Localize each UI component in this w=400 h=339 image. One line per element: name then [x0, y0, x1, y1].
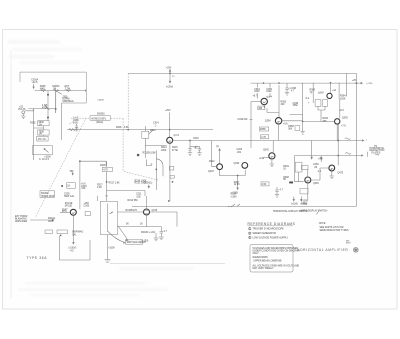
wire from jack: [25, 109, 55, 111]
wire: [145, 144, 166, 146]
capacitor C315: [188, 148, 191, 153]
wires: [308, 168, 329, 200]
svg-text:1%: 1%: [39, 124, 42, 126]
label SW300: [40, 191, 55, 198]
svg-text:UPPER BEAM LOWER BE: UPPER BEAM LOWER BE: [253, 259, 282, 262]
resistor R355: [259, 127, 268, 131]
resistor R301A: [41, 90, 46, 92]
svg-text:Q393: Q393: [342, 118, 348, 120]
pot box R318: [100, 201, 117, 234]
output arrow lower: [356, 155, 363, 156]
wire emitter down: [73, 215, 75, 244]
transistor Q393: [335, 119, 340, 124]
junction dot: [127, 129, 129, 131]
label swp mag regis box: [126, 240, 143, 244]
svg-text:FOLL: FOLL: [62, 212, 69, 214]
wire vertical contact: [47, 91, 49, 121]
svg-text:5K: 5K: [283, 179, 286, 181]
wire: [106, 161, 108, 201]
junction blob: [137, 154, 140, 157]
svg-text:1M: 1M: [53, 89, 56, 91]
svg-text:R309: R309: [100, 165, 106, 167]
svg-text:6.8K: 6.8K: [124, 127, 129, 129]
wire center vertical: [169, 113, 171, 138]
svg-text:R312 560: R312 560: [128, 200, 139, 202]
big box right edge: [355, 73, 357, 206]
transistor Q354: [275, 118, 281, 124]
svg-text:C306: C306: [84, 205, 90, 207]
wire bus3 out: [295, 155, 357, 157]
svg-text:+7.9: +7.9: [341, 126, 346, 128]
resistor R311: [85, 212, 90, 216]
svg-text:1K: 1K: [67, 186, 70, 188]
resistor R462: [300, 189, 308, 194]
ghost left strip: [10, 50, 12, 298]
svg-text:1000: 1000: [266, 91, 272, 93]
junction dots: [47, 94, 49, 96]
wire arrow: [33, 84, 34, 89]
item 1: [249, 227, 251, 229]
svg-text:.001: .001: [243, 119, 248, 121]
svg-text:LOW VOLTAGE POWER SUPPLY: LOW VOLTAGE POWER SUPPLY: [253, 236, 289, 239]
wire Q364 down to Q354: [264, 85, 279, 118]
svg-text:Q313: Q313: [152, 210, 158, 212]
ground J: [154, 238, 159, 241]
svg-text:R322: R322: [209, 161, 215, 163]
svg-text:R391: R391: [323, 118, 329, 120]
ground: [105, 260, 111, 263]
resistor R461: [301, 165, 308, 169]
svg-text:1000: 1000: [254, 91, 260, 93]
junction dot: [237, 175, 239, 177]
jack ground: [22, 114, 24, 116]
svg-text:WAVEFORMS:: WAVEFORMS:: [253, 256, 269, 259]
svg-text:5K: 5K: [126, 224, 129, 226]
junction dot on bus1: [169, 129, 171, 131]
svg-text:-4.5: -4.5: [70, 250, 75, 252]
svg-text:.005: .005: [136, 196, 141, 198]
svg-text:R313B 100K: R313B 100K: [143, 153, 157, 155]
svg-text:NOTE:: NOTE:: [319, 223, 326, 225]
ground: [159, 237, 164, 240]
hatch marks: [228, 204, 240, 207]
wire bus3 drop: [295, 156, 304, 182]
svg-text:100K: 100K: [48, 221, 54, 223]
svg-text:+25V: +25V: [166, 67, 172, 69]
resistor R350 tall: [295, 162, 302, 172]
ghost line: [110, 263, 225, 265]
svg-text:SEMICONDUCTOR TYPES: SEMICONDUCTOR TYPES: [320, 230, 349, 232]
svg-text:(+25V): (+25V): [166, 86, 173, 88]
wire emitter: [278, 124, 280, 141]
capacitor C348: [285, 83, 288, 92]
wire: [43, 103, 61, 140]
svg-text:C316: C316: [193, 138, 199, 140]
tick on feedback: [250, 119, 253, 121]
resistor box: [45, 230, 53, 233]
ground: [331, 171, 333, 176]
wire: [97, 196, 99, 201]
svg-text:R315: R315: [172, 147, 178, 149]
svg-text:+5.9: +5.9: [318, 159, 323, 161]
svg-text:.001: .001: [81, 188, 86, 190]
wire ganged switch dashed diagonal: [36, 118, 87, 217]
svg-text:UNDER CONDITIONS GIVEN ON DIAG: UNDER CONDITIONS GIVEN ON DIAGRAM: [253, 249, 300, 252]
svg-text:2.7K: 2.7K: [261, 137, 266, 139]
svg-text:Q343: Q343: [263, 150, 269, 152]
svg-text:R384: R384: [340, 96, 346, 98]
svg-text:VOLTS: VOLTS: [18, 109, 26, 111]
transistor Q473: [329, 165, 335, 171]
svg-text:47K 1%: 47K 1%: [38, 139, 46, 141]
svg-text:+139: +139: [259, 158, 265, 160]
connector stud: [289, 182, 293, 184]
item 3: [249, 236, 251, 238]
jack J25: [22, 111, 25, 114]
svg-text:R310B: R310B: [126, 210, 134, 212]
dashed linkage vertical: [122, 119, 124, 172]
svg-text:Q323: Q323: [208, 171, 214, 173]
ground: [197, 153, 201, 156]
svg-text:+6.7: +6.7: [253, 96, 258, 98]
wire tick arrow: [72, 172, 73, 175]
wire bus: [35, 89, 87, 92]
svg-text:+150V: +150V: [108, 248, 115, 250]
wire cross link: [34, 126, 44, 130]
svg-text:ONLY.: ONLY.: [253, 253, 260, 255]
wire emitter down: [169, 143, 171, 201]
svg-text:R326: R326: [231, 194, 237, 196]
wire base to Q313: [118, 211, 144, 213]
svg-text:R311: R311: [135, 183, 141, 185]
resistor R302B 750K: [38, 130, 49, 135]
bus label ticks: [43, 89, 68, 92]
item 2: [249, 232, 251, 234]
svg-text:TP: TP: [216, 147, 219, 149]
svg-text:R313: R313: [150, 130, 156, 132]
wire: [302, 122, 304, 129]
wire drop from bus2: [189, 141, 191, 148]
svg-text:-1.2: -1.2: [317, 171, 322, 173]
wire: [303, 99, 340, 140]
wire: [150, 212, 178, 227]
svg-text:(+225): (+225): [367, 83, 373, 85]
wire base stub: [251, 101, 261, 103]
ghost smudge top-left: [8, 40, 82, 64]
svg-text:56K: 56K: [288, 128, 293, 130]
transistor Q463: [305, 177, 311, 183]
wire switch shaft: [55, 91, 57, 113]
svg-text:SW300: SW300: [41, 193, 49, 195]
svg-text:R314: R314: [161, 147, 167, 149]
svg-text:MAY VARY WIDELY.: MAY VARY WIDELY.: [253, 267, 275, 270]
ganged curve arrows: [108, 232, 125, 244]
resistor R357: [261, 135, 269, 139]
svg-text:MAG: MAG: [40, 88, 45, 91]
svg-text:(MAG): (MAG): [96, 121, 103, 124]
svg-text:1.5K: 1.5K: [262, 184, 267, 186]
svg-text:56K: 56K: [70, 171, 75, 173]
svg-text:-0.4: -0.4: [305, 98, 310, 100]
svg-text:HORIZ DISPL: HORIZ DISPL: [92, 119, 107, 121]
svg-text:(.1): (.1): [149, 182, 153, 184]
big box bottom edge: [132, 205, 356, 207]
resistor R301B: [54, 90, 59, 92]
svg-text:SWP/MAG: SWP/MAG: [62, 100, 73, 103]
resistor R304A 47K: [37, 136, 48, 141]
wire vertical at 212: [211, 141, 213, 167]
dashed linkage segs: [124, 172, 158, 181]
pot R313: [142, 131, 149, 138]
svg-text:AMPLIFIER: AMPLIFIER: [15, 220, 28, 223]
svg-text:R383: R383: [310, 90, 316, 92]
svg-text:v: v: [366, 140, 367, 142]
capacitor C336: [275, 187, 278, 195]
transistor Q343: [269, 153, 275, 159]
svg-text:1K: 1K: [140, 224, 143, 226]
wire: [318, 106, 325, 121]
resistor R309: [102, 167, 112, 171]
big box left dashed edge: [127, 73, 129, 129]
resistor box: [57, 230, 68, 234]
wire feedback drop: [250, 102, 252, 149]
wire dashed to callout: [71, 117, 89, 119]
supply rail arrow: [356, 82, 362, 84]
wire dashed: [111, 117, 123, 119]
svg-text:100K: 100K: [141, 183, 147, 185]
svg-text:+1.84: +1.84: [149, 232, 156, 234]
wire main vertical: [79, 161, 81, 210]
TP arrow: [320, 157, 322, 163]
transistor Q323: [217, 164, 223, 170]
wire collector from bus2: [272, 141, 274, 154]
svg-text:C300B: C300B: [98, 100, 105, 102]
transistor Q303: [70, 209, 76, 215]
svg-text:CAL: CAL: [72, 233, 77, 236]
svg-text:TRIGGER SYNCHROSCOPE: TRIGGER SYNCHROSCOPE: [253, 229, 284, 231]
wire branch right: [80, 161, 106, 165]
svg-text:+25V: +25V: [165, 110, 171, 112]
svg-text:3.3K: 3.3K: [97, 187, 102, 189]
wire TP arrow: [219, 149, 221, 164]
svg-text:+22.5: +22.5: [32, 82, 39, 84]
wire y146 stub: [190, 145, 200, 147]
junction dots: [330, 82, 332, 84]
svg-text:C322: C322: [237, 149, 243, 151]
svg-text:SWP/MAG: SWP/MAG: [72, 231, 83, 234]
svg-text:R302: R302: [30, 123, 36, 125]
transistor Q333: [242, 163, 248, 169]
transistor Q313: [144, 209, 150, 215]
capacitor C384: [315, 100, 321, 107]
svg-text:(-150V): (-150V): [69, 248, 77, 250]
wire L: [146, 159, 152, 165]
svg-text:(+150): (+150): [291, 204, 298, 206]
wire: [282, 115, 303, 121]
wire base: [60, 211, 70, 213]
capacitor C316: [198, 146, 201, 153]
resistor R301C: [66, 90, 71, 92]
svg-text:470K: 470K: [42, 108, 48, 110]
transistor Q314: [167, 137, 173, 143]
output arrow upper: [356, 140, 363, 141]
wire bus2 out: [173, 140, 357, 142]
svg-text:8-50: 8-50: [73, 123, 78, 125]
+25V feed arrows: [169, 70, 171, 84]
svg-text:REFERENCE DIAGRAMS: REFERENCE DIAGRAMS: [248, 222, 296, 226]
wire: [107, 235, 109, 260]
svg-text:+150V: +150V: [301, 201, 308, 203]
svg-text:R310A: R310A: [48, 217, 56, 220]
svg-text:R317 1.8K: R317 1.8K: [109, 182, 120, 184]
svg-text:4.7K: 4.7K: [103, 170, 108, 172]
svg-text:R310D: R310D: [141, 232, 149, 234]
resistor box: [170, 176, 174, 179]
wires from rail: [258, 83, 271, 98]
ground: [188, 153, 192, 156]
arrows to divider: [293, 197, 302, 202]
resistor R316: [67, 182, 76, 188]
svg-text:BLANKING: BLANKING: [15, 218, 27, 221]
wire arrow: [30, 219, 54, 221]
svg-text:HORIZ DISP: HORIZ DISP: [41, 196, 55, 198]
ground: [301, 132, 305, 135]
wire verticals: [303, 83, 339, 122]
resistor R385: [323, 100, 328, 107]
svg-text:+150V: +150V: [44, 156, 51, 158]
capacitor C310: [160, 227, 164, 237]
svg-text:-150V: -150V: [231, 196, 238, 198]
svg-text:HORIZONTAL DISPLAY SWITCH: HORIZONTAL DISPLAY SWITCH: [273, 210, 308, 213]
svg-text:VOLTAGES AND WAVEFORMS OBTAINE: VOLTAGES AND WAVEFORMS OBTAINED: [253, 247, 299, 250]
svg-text:Q333: Q333: [234, 163, 240, 165]
switch wiper SW300A: [56, 91, 62, 95]
wire main mid vertical: [155, 151, 157, 191]
resistor R381: [295, 126, 300, 131]
transistor Q383: [327, 93, 332, 98]
wire drop w arrow: [311, 141, 313, 160]
wire tick: [105, 195, 108, 197]
svg-text:ALL VOLTAGES GIVEN ARE IN VOLT: ALL VOLTAGES GIVEN ARE IN VOLTS AND: [253, 264, 300, 267]
svg-text:1%: 1%: [39, 134, 42, 136]
svg-text:453: 453: [258, 108, 263, 110]
supply rail: [251, 82, 357, 84]
switch enclosure box: [20, 72, 86, 103]
wire pair U link: [212, 167, 246, 176]
junction dot: [61, 185, 63, 187]
wire left column: [33, 109, 35, 160]
svg-text:.001: .001: [237, 152, 242, 154]
ghost smudge bottom-left: [18, 268, 195, 296]
svg-text:Q463: Q463: [313, 183, 319, 185]
transistor Q364: [261, 98, 267, 104]
wire branch to Q313 col: [107, 191, 145, 197]
svg-text:Q354: Q354: [265, 121, 271, 123]
svg-text:SWP CAL: SWP CAL: [64, 195, 75, 198]
wire arrow down: [148, 185, 150, 189]
resistor R302A 560K: [38, 121, 49, 126]
wire lower link: [118, 215, 162, 227]
wire emitter ground: [271, 159, 273, 164]
svg-text:(+150): (+150): [142, 241, 149, 243]
svg-text:R355: R355: [260, 129, 266, 131]
junction dots on rail: [263, 82, 265, 84]
big box top edge: [128, 72, 356, 74]
resistor R364: [258, 106, 265, 110]
svg-text:1K: 1K: [283, 168, 286, 170]
svg-text:(R310): (R310): [65, 205, 72, 207]
svg-text:SWEEP GENERATOR: SWEEP GENERATOR: [253, 232, 277, 235]
resistor R336: [261, 182, 269, 186]
svg-text:C. 1K-6.3: C. 1K-6.3: [39, 159, 50, 161]
tek symbol: [353, 247, 358, 252]
svg-text:1562: 1562: [293, 105, 299, 107]
svg-text:C314: C314: [153, 123, 159, 125]
svg-text:100K: 100K: [161, 150, 167, 152]
svg-text:HORIZONTAL AMPLIFIER: HORIZONTAL AMPLIFIER: [297, 248, 348, 252]
svg-text:Q473: Q473: [338, 173, 344, 175]
wire bus1: [67, 129, 213, 131]
wire Q393-Q473 column: [337, 124, 339, 165]
wire rounded elbow: [156, 159, 163, 177]
wire U loop: [59, 236, 90, 260]
wire vertical R384: [345, 73, 347, 96]
svg-text:12.9K: 12.9K: [234, 184, 241, 186]
svg-text:2.7M: 2.7M: [65, 89, 70, 91]
svg-text:10K: 10K: [281, 104, 286, 106]
switch wiper SW300B: [45, 105, 49, 110]
resistor on bus1: [69, 129, 75, 131]
svg-text:100K: 100K: [340, 98, 346, 100]
svg-text:C463: C463: [313, 164, 319, 166]
svg-text:SEE PARTS LIST FOR: SEE PARTS LIST FOR: [320, 226, 344, 229]
svg-text:SW300: SW300: [97, 114, 105, 116]
svg-text:TP: TP: [310, 92, 313, 94]
capacitor C302: [75, 124, 78, 129]
svg-text:R306: R306: [116, 127, 122, 129]
svg-text:C311: C311: [136, 194, 142, 196]
resistor box: [169, 166, 173, 170]
pot box R304: [33, 146, 53, 155]
svg-text:R468: R468: [301, 203, 307, 205]
wire tail: [237, 176, 239, 190]
svg-text:47.5K: 47.5K: [172, 150, 179, 152]
svg-text:47K: 47K: [133, 210, 138, 212]
wire collector up: [146, 196, 148, 209]
svg-text:TYPE 36A: TYPE 36A: [27, 256, 48, 260]
callout box swp/mag: [90, 115, 111, 120]
svg-text:-174: -174: [339, 110, 344, 112]
